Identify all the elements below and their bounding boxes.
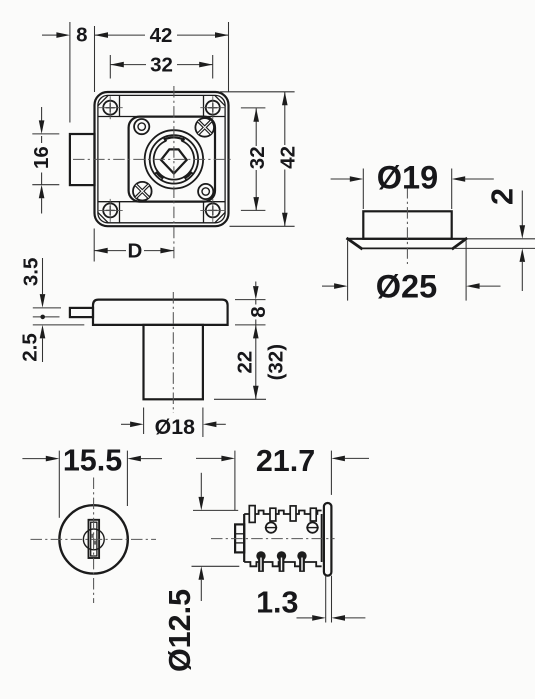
dimension diameter 18 xyxy=(121,415,226,439)
dimension 22 (32) cylinder depth xyxy=(234,325,288,399)
extension lines diameter 18 xyxy=(144,408,203,438)
svg-text:16: 16 xyxy=(30,146,53,169)
cylinder body top edge (castle profile) xyxy=(244,511,321,515)
case flange line bottom xyxy=(98,201,225,203)
svg-text:(32): (32) xyxy=(265,344,288,380)
svg-text:21.7: 21.7 xyxy=(256,444,315,478)
lock case inner edge xyxy=(98,95,225,222)
front view vertical centerline xyxy=(173,86,175,262)
front view horizontal centerline xyxy=(73,158,233,160)
case flange line top xyxy=(98,116,225,118)
dimension 15.5 (face diameter) xyxy=(22,443,162,477)
rosette flange top face xyxy=(348,238,467,240)
tick pin bottom with dot terminator xyxy=(33,315,60,320)
cam radial tick 143 xyxy=(154,171,158,174)
dimension 32 horizontal xyxy=(110,53,212,76)
bottom tumbler pins xyxy=(256,551,306,572)
dimension 8 (bolt throw) xyxy=(42,24,88,47)
cross screw bottom-left xyxy=(133,182,152,201)
extension line body top left xyxy=(193,509,238,511)
cam end cut right xyxy=(181,137,185,141)
top spring pins xyxy=(249,506,316,523)
cylinder housing outer circle xyxy=(145,130,203,188)
svg-text:42: 42 xyxy=(276,146,299,169)
cam end cut left xyxy=(163,137,167,141)
dimension 21.7 (cylinder length) xyxy=(196,444,369,478)
extension line bottom-right holes xyxy=(241,209,266,211)
retainer screw left xyxy=(265,522,277,532)
retainer screw right xyxy=(306,522,318,532)
extension lines 16 left xyxy=(32,134,59,185)
inner mechanism plate xyxy=(129,117,215,202)
ring hole top-left xyxy=(134,119,149,134)
cylinder side horizontal centerline xyxy=(211,538,335,540)
svg-text:Ø12.5: Ø12.5 xyxy=(163,589,197,672)
extension line top-right holes xyxy=(241,107,266,109)
bolt (latch) front view xyxy=(70,134,95,185)
cam radial tick 37 xyxy=(190,171,194,174)
rosette flange left chamfer xyxy=(348,239,362,249)
svg-text:42: 42 xyxy=(150,24,173,47)
corner screw hole bottom-right xyxy=(200,199,225,222)
lock case front view outer plate xyxy=(95,92,229,226)
extension lines diameter 25 xyxy=(348,241,467,301)
cylinder body bottom edge (castle profile) xyxy=(244,562,321,566)
rotor cam arc bottom-right xyxy=(185,173,191,179)
front cap xyxy=(235,524,244,552)
dimension diameter 19 xyxy=(331,160,494,196)
extension line body bottom left xyxy=(192,565,240,567)
cross screw top-right xyxy=(195,118,214,137)
svg-text:Ø18: Ø18 xyxy=(155,415,195,439)
dimension 32 vertical (hole spacing) xyxy=(246,108,269,210)
extension lines 1.3 xyxy=(326,576,332,623)
tick plate bottom left xyxy=(33,324,85,326)
rear flange xyxy=(324,503,332,576)
dimension 2 (flange thickness) xyxy=(485,188,525,291)
cylinder face vertical centerline xyxy=(93,478,95,604)
lock case side view plate xyxy=(93,300,228,325)
rotor cam arc top xyxy=(164,137,185,140)
extension line D left xyxy=(93,229,95,262)
extension lines 32 top xyxy=(110,55,212,79)
dimension 42 vertical xyxy=(276,92,299,227)
svg-text:2.5: 2.5 xyxy=(19,333,42,362)
extension line bolt tip xyxy=(69,22,71,123)
keyhole plug circle xyxy=(83,529,104,550)
corner box bottom-left xyxy=(98,202,120,223)
keyhole ward marks xyxy=(91,534,97,545)
corner box top-right xyxy=(204,95,226,116)
latch pin side view xyxy=(70,308,93,317)
cylinder side view body xyxy=(144,325,203,399)
corner screw hole top-right xyxy=(200,96,225,119)
dimension 1.3 (flange thickness) xyxy=(256,586,365,621)
extension line plate top right xyxy=(220,91,295,93)
corner box top-left xyxy=(98,95,120,116)
svg-text:Ø19: Ø19 xyxy=(377,160,438,196)
cylinder body right edge xyxy=(321,514,323,562)
svg-text:8: 8 xyxy=(247,306,270,317)
tick pin top xyxy=(33,307,61,309)
svg-text:D: D xyxy=(127,240,142,263)
svg-text:8: 8 xyxy=(76,24,87,47)
rosette vertical centerline xyxy=(406,187,408,264)
svg-text:1.3: 1.3 xyxy=(256,586,298,620)
svg-text:32: 32 xyxy=(246,146,269,169)
rosette flange bottom edge xyxy=(361,247,453,249)
extension lines 15.5 xyxy=(59,451,127,518)
extension line plate left xyxy=(94,26,96,92)
dimension 2.5 (pin to plate bottom) xyxy=(19,325,46,362)
cam radial tick 59 xyxy=(184,176,187,181)
rotor cam arc bottom-left xyxy=(156,173,162,179)
dimension D (backset) xyxy=(94,240,174,263)
extension line plate top right (side) xyxy=(235,299,266,301)
dimension 8 (plate thickness) xyxy=(247,282,270,325)
svg-text:15.5: 15.5 xyxy=(63,443,122,477)
svg-text:2: 2 xyxy=(485,188,519,205)
side view vertical centerline xyxy=(172,292,174,413)
svg-text:3.5: 3.5 xyxy=(20,258,43,287)
extension lines diameter 19 xyxy=(363,169,451,210)
dimension diameter 25 xyxy=(322,268,501,304)
keyhole slot xyxy=(91,522,97,556)
extension lines 21.7 xyxy=(235,451,332,511)
cylinder face horizontal centerline xyxy=(31,538,157,540)
corner screw hole top-left xyxy=(98,96,123,119)
extension lines thickness 2 xyxy=(454,239,535,249)
cylinder rotor circle (notched at top) xyxy=(154,141,194,180)
svg-text:32: 32 xyxy=(150,53,173,76)
dimension 42 horizontal xyxy=(95,24,229,47)
extension line plate bottom right xyxy=(230,225,295,227)
dimension diameter 12.5 xyxy=(163,473,204,672)
corner screw hole bottom-left xyxy=(98,199,123,222)
keyhole housing xyxy=(89,520,100,558)
dimension 3.5 (pin height) xyxy=(20,258,46,308)
svg-text:22: 22 xyxy=(234,351,257,374)
cylinder face circle xyxy=(59,505,127,573)
extension line plate bottom right (side) xyxy=(235,324,266,326)
dimension 16 (bolt height) xyxy=(30,107,53,214)
rosette flange right chamfer xyxy=(453,239,466,249)
extension line plate right xyxy=(228,22,230,92)
corner box bottom-right xyxy=(204,202,226,223)
cylinder bore circle xyxy=(150,135,198,183)
spindle hole (gem shape) xyxy=(161,149,187,173)
extension line cylinder bottom right xyxy=(214,398,266,400)
rosette sleeve xyxy=(363,211,451,239)
svg-text:Ø25: Ø25 xyxy=(376,268,437,304)
cam radial tick 121 xyxy=(161,176,164,181)
ring hole bottom-right xyxy=(198,184,213,199)
cylinder body left edge xyxy=(243,514,245,562)
